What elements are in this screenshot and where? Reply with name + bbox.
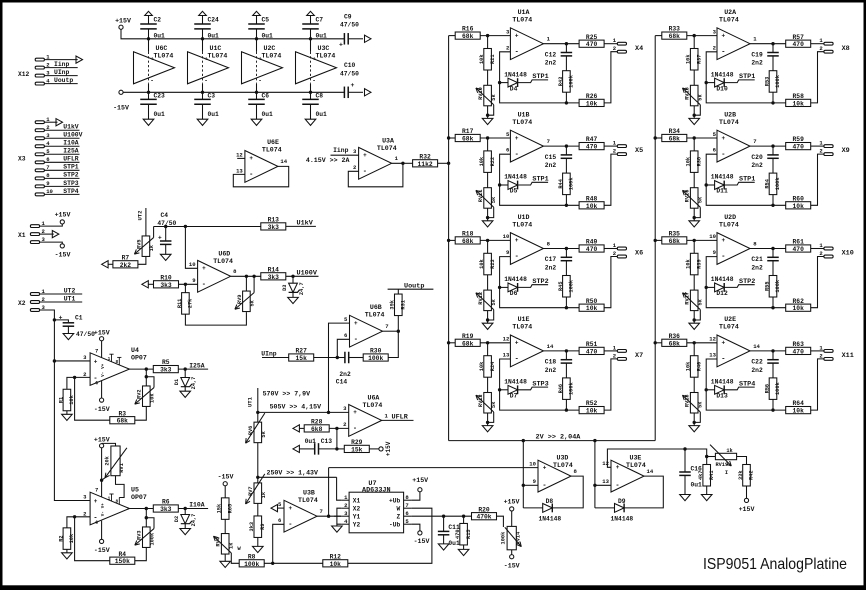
svg-text:10k: 10k <box>586 408 598 415</box>
svg-text:1N4148: 1N4148 <box>504 174 527 181</box>
connector X1 pin 2 <box>30 228 58 238</box>
wire bus to R36 <box>655 342 662 344</box>
svg-text:-: - <box>515 253 519 261</box>
potentiometer RV4 <box>214 534 240 564</box>
net label Uoutp with wire <box>388 282 434 290</box>
svg-text:100k: 100k <box>368 355 383 362</box>
svg-text:+: + <box>515 237 519 244</box>
svg-text:68k: 68k <box>669 340 681 347</box>
wire R34 to node <box>687 137 717 139</box>
svg-text:68k: 68k <box>462 33 474 40</box>
svg-text:R23: R23 <box>490 259 496 269</box>
svg-text:10k: 10k <box>793 305 805 312</box>
ground <box>482 221 493 227</box>
capacitor C12 <box>545 44 572 71</box>
wire R4 to RV3 <box>135 547 147 560</box>
svg-text:R34: R34 <box>669 128 681 135</box>
op-amp U5 <box>83 486 147 526</box>
resistor R21 <box>479 49 496 71</box>
wire D3 to ground <box>292 293 294 298</box>
svg-text:100k: 100k <box>775 381 781 395</box>
svg-text:0u1: 0u1 <box>305 438 317 445</box>
junction <box>771 408 774 411</box>
zener diode D1 <box>174 377 197 390</box>
wire R23 to RV12 <box>487 275 489 290</box>
arrow port at C13 <box>293 445 315 452</box>
svg-text:UInp: UInp <box>54 69 70 76</box>
svg-text:D7: D7 <box>510 393 518 400</box>
svg-text:R16: R16 <box>462 26 474 33</box>
resistor R37 <box>686 49 703 71</box>
resistor R14 <box>261 266 286 280</box>
junction <box>705 183 708 186</box>
ground <box>63 334 74 340</box>
svg-text:V-: V- <box>102 511 106 516</box>
resistor R52 <box>579 400 604 414</box>
svg-text:0u1: 0u1 <box>262 111 274 118</box>
wire R24 to RV13 <box>487 377 489 392</box>
power net -15V at U7 <box>412 524 430 545</box>
svg-text:1k: 1k <box>149 244 155 251</box>
wire R60 to connector pin 2 <box>811 154 824 205</box>
ground <box>160 254 171 260</box>
wire R3 to RV2 <box>135 406 147 420</box>
junction <box>693 341 696 344</box>
resistor R16 <box>455 26 480 40</box>
connector X2 pin 3 <box>30 304 45 312</box>
svg-text:+: + <box>721 237 725 244</box>
svg-text:U3D: U3D <box>557 454 569 461</box>
svg-text:+: + <box>721 340 725 347</box>
resistor R50 <box>579 298 604 312</box>
svg-text:15k: 15k <box>351 446 363 453</box>
svg-text:-15V: -15V <box>94 547 110 554</box>
wire U1D output <box>543 248 579 250</box>
svg-text:10: 10 <box>709 233 716 240</box>
wire bus to R16 <box>449 35 456 37</box>
zener diode D3 <box>282 282 305 295</box>
svg-text:150k: 150k <box>115 558 130 565</box>
svg-text:STP1: STP1 <box>63 164 79 171</box>
wire bus to U4 noninverting input <box>54 360 90 362</box>
op-amp U1D <box>503 214 551 265</box>
svg-text:X1: X1 <box>353 498 361 505</box>
svg-text:D5: D5 <box>510 188 518 195</box>
connector X3 pin 5 <box>35 148 79 156</box>
svg-text:U2A: U2A <box>724 9 736 16</box>
diode D9 feedback <box>595 476 663 522</box>
svg-text:68k: 68k <box>462 136 474 143</box>
svg-text:UT1: UT1 <box>246 396 253 407</box>
svg-text:-: - <box>202 281 206 289</box>
connector X3 pin 1 <box>35 116 62 126</box>
wire 4,15V node to U6A noninverting input <box>258 411 349 413</box>
svg-text:5k: 5k <box>250 299 256 306</box>
wire RV9 top to U6D output <box>245 276 247 291</box>
svg-text:13: 13 <box>236 167 243 174</box>
connector X5 pin 2 <box>613 148 627 156</box>
wire U1B output <box>543 145 579 147</box>
connector X9 pin 2 <box>819 148 833 156</box>
power net +15V at RV14 <box>504 498 520 526</box>
resistor R64 <box>786 400 811 414</box>
svg-text:TL074: TL074 <box>719 324 739 331</box>
junction <box>486 136 489 139</box>
connector X6 pin 1 <box>613 242 627 250</box>
svg-text:10k: 10k <box>479 361 485 371</box>
svg-text:OP07: OP07 <box>131 494 147 501</box>
svg-text:3k3: 3k3 <box>160 282 172 289</box>
svg-text:1: 1 <box>108 357 111 362</box>
arrow port at U3B noninverting input <box>271 505 284 512</box>
junction <box>255 91 258 94</box>
potentiometer RV6 <box>246 413 267 443</box>
svg-text:3k3: 3k3 <box>268 274 280 281</box>
svg-text:X11: X11 <box>842 352 854 360</box>
svg-text:68k: 68k <box>117 418 129 425</box>
junction <box>593 484 596 487</box>
resistor R15 <box>455 523 472 545</box>
svg-text:D4: D4 <box>510 85 518 92</box>
connector X11 pin 2 <box>819 352 833 360</box>
wire U2E inverting feedback line <box>706 359 786 410</box>
wire R38 to RV16 <box>693 172 695 187</box>
svg-text:12: 12 <box>709 336 716 343</box>
wire inverting node down to C13/R29 <box>336 428 338 449</box>
wire U3B out to U7 Y1 <box>334 515 341 517</box>
potentiometer RV10 <box>476 85 497 117</box>
svg-text:470: 470 <box>586 144 598 151</box>
svg-text:3k3: 3k3 <box>160 367 172 374</box>
svg-text:STP3: STP3 <box>532 380 548 388</box>
svg-text:R25: R25 <box>586 34 598 41</box>
svg-text:250V >> 1,43V: 250V >> 1,43V <box>267 469 318 476</box>
svg-text:+: + <box>59 315 63 322</box>
wire R40 to RV18 <box>693 377 695 392</box>
svg-text:D1: D1 <box>174 379 180 385</box>
svg-text:R4: R4 <box>119 551 127 558</box>
wire RV18 to ground <box>693 413 695 426</box>
junction <box>565 204 568 207</box>
potentiometer RV5 <box>134 227 155 257</box>
svg-text:R29: R29 <box>351 439 363 446</box>
op-amp U3C <box>296 39 337 93</box>
wire R59 to connector <box>811 145 824 147</box>
svg-text:-: - <box>204 77 208 84</box>
svg-text:Z: Z <box>396 514 400 521</box>
wire D1 to ground <box>184 387 186 391</box>
resistor R7 <box>113 254 138 268</box>
wire R61 to connector <box>811 248 824 250</box>
wire U3B output up to U3D noninverting line <box>328 468 330 517</box>
junction <box>522 484 525 487</box>
wire U6B output node <box>383 330 399 332</box>
svg-text:C23: C23 <box>154 93 166 100</box>
svg-text:C21: C21 <box>751 256 763 263</box>
junction <box>271 562 274 565</box>
wire -15V rail <box>123 91 344 93</box>
svg-text:Y2: Y2 <box>353 522 361 529</box>
svg-text:R8: R8 <box>248 553 256 560</box>
resistor R25 <box>579 34 604 48</box>
op-amp U2A <box>713 9 758 60</box>
arrow port at R28 <box>293 425 304 432</box>
wire RV5 wiper to U1kV line <box>154 226 261 228</box>
wire U2A inverting feedback line <box>706 52 786 103</box>
wire U1A inverting feedback line <box>500 52 579 103</box>
resistor R45 <box>558 276 575 298</box>
zener diode D2 <box>174 514 197 527</box>
svg-text:TL074: TL074 <box>213 258 233 265</box>
wire R65 to RV4 <box>224 519 226 533</box>
junction <box>401 162 404 165</box>
svg-text:C13: C13 <box>321 438 333 445</box>
resistor R10 <box>154 274 179 288</box>
resistor R42 <box>738 465 755 487</box>
svg-text:C17: C17 <box>545 256 557 263</box>
svg-text:5k: 5k <box>491 196 497 203</box>
diode D8 feedback <box>523 476 583 522</box>
svg-text:+: + <box>515 340 519 347</box>
op-amp U6C <box>134 39 175 93</box>
resistor R28 <box>304 419 329 433</box>
junction <box>447 341 450 344</box>
svg-text:C24: C24 <box>208 16 220 23</box>
svg-text:5k: 5k <box>697 298 703 305</box>
svg-text:C1: C1 <box>75 315 83 322</box>
junction <box>335 427 338 430</box>
svg-text:-: - <box>615 482 619 490</box>
diode D4 <box>500 71 548 92</box>
svg-text:+15V: +15V <box>739 506 755 513</box>
svg-text:8: 8 <box>115 500 118 505</box>
svg-text:33k: 33k <box>738 470 744 480</box>
svg-text:R63: R63 <box>793 341 805 348</box>
wire node to RV19 and R41 <box>685 449 707 465</box>
svg-text:C14: C14 <box>336 379 348 386</box>
wire R13 to U1kV label <box>286 220 316 228</box>
junction <box>654 341 657 344</box>
potentiometer RV19 <box>710 445 737 476</box>
wire R39 to RV17 <box>693 275 695 290</box>
wire R10 to U6D inverting input <box>179 283 198 285</box>
wire RV6 to RV7 <box>257 443 259 483</box>
svg-text:100k: 100k <box>244 561 259 568</box>
svg-text:10k: 10k <box>686 156 692 166</box>
svg-text:47/50: 47/50 <box>340 21 359 28</box>
svg-text:+: + <box>202 265 206 272</box>
junction <box>486 239 489 242</box>
svg-text:D8: D8 <box>546 498 554 505</box>
svg-text:+Ub: +Ub <box>389 498 400 505</box>
svg-text:5k: 5k <box>697 401 703 408</box>
wire U3D noninverting input from U3B <box>329 467 538 469</box>
resistor R6 <box>153 499 178 513</box>
ground <box>332 526 343 532</box>
svg-text:U2C: U2C <box>264 45 276 52</box>
svg-text:R1: R1 <box>58 397 64 403</box>
junction <box>245 275 248 278</box>
svg-text:10k: 10k <box>793 408 805 415</box>
svg-text:10k: 10k <box>686 361 692 371</box>
wire R22 to RV11 <box>487 172 489 187</box>
svg-text:2n2: 2n2 <box>545 162 557 169</box>
junction <box>693 239 696 242</box>
connector X3 pin 4 <box>35 140 79 148</box>
wire RV11 to ground <box>487 208 489 221</box>
wire R64 to connector pin 2 <box>811 359 824 410</box>
svg-text:V-: V- <box>102 372 106 377</box>
svg-text:I10A: I10A <box>63 140 79 147</box>
resistor R31 <box>390 294 407 316</box>
svg-text:-: - <box>150 77 154 84</box>
svg-text:U3B: U3B <box>303 489 315 496</box>
svg-text:7: 7 <box>95 487 98 494</box>
connector X4 pin 2 <box>613 45 627 53</box>
svg-text:4k7: 4k7 <box>698 470 704 480</box>
junction <box>771 306 774 309</box>
wire R14 to U100V label <box>286 270 319 278</box>
svg-text:UT1: UT1 <box>64 295 76 302</box>
wire RV15 to ground <box>693 106 695 119</box>
svg-text:R18: R18 <box>462 231 474 238</box>
junction <box>771 204 774 207</box>
svg-text:D3: D3 <box>282 285 288 291</box>
svg-text:R44: R44 <box>558 178 564 188</box>
potentiometer RV2 <box>135 375 156 406</box>
svg-text:+: + <box>543 464 547 471</box>
svg-text:U100V: U100V <box>63 132 82 139</box>
svg-text:-: - <box>721 48 725 56</box>
svg-text:U1A: U1A <box>518 9 530 16</box>
ground <box>689 426 700 432</box>
svg-text:14: 14 <box>547 343 554 350</box>
junction C4 <box>164 225 167 228</box>
resistor R53 <box>764 71 781 93</box>
junction <box>771 144 774 147</box>
svg-text:X8: X8 <box>842 45 850 53</box>
svg-text:W: W <box>396 506 400 513</box>
svg-text:U3E: U3E <box>630 454 642 461</box>
capacitor C8 <box>302 92 327 119</box>
wire R21 to RV10 <box>487 70 489 85</box>
connector X10 pin 2 <box>819 250 833 258</box>
wire U6E feedback loop <box>233 166 288 186</box>
svg-text:TL074: TL074 <box>553 462 573 469</box>
wire R41 to ground <box>706 486 708 495</box>
svg-text:470: 470 <box>586 246 598 253</box>
wire U2D inverting feedback line <box>706 257 786 308</box>
wire U7 W to R12 <box>348 508 432 563</box>
svg-text:Z4,7: Z4,7 <box>191 377 197 390</box>
svg-text:Iinp: Iinp <box>54 61 70 68</box>
svg-text:R6: R6 <box>162 499 170 506</box>
svg-text:4.15V >> 2A: 4.15V >> 2A <box>306 157 350 164</box>
svg-text:C2: C2 <box>154 16 162 23</box>
svg-text:R46: R46 <box>558 384 564 394</box>
svg-text:68k: 68k <box>669 238 681 245</box>
junction <box>683 447 686 450</box>
svg-text:X3: X3 <box>18 156 26 163</box>
svg-text:U6D: U6D <box>218 251 230 258</box>
ground <box>689 221 700 227</box>
wire R53 to feedback line <box>772 92 774 103</box>
svg-text:TL074: TL074 <box>262 52 282 59</box>
svg-text:100k: 100k <box>569 279 575 293</box>
svg-text:UT2: UT2 <box>136 210 143 221</box>
potentiometer RV7 <box>246 474 267 504</box>
svg-text:2n2: 2n2 <box>545 264 557 271</box>
junction <box>565 144 568 147</box>
connector X8 pin 2 <box>819 45 833 53</box>
svg-text:0u1: 0u1 <box>316 111 328 118</box>
wire U2A output <box>750 43 786 45</box>
svg-text:1N4148: 1N4148 <box>711 379 734 386</box>
svg-text:C4: C4 <box>161 212 169 219</box>
junction <box>705 81 708 84</box>
resistor R34 <box>662 128 687 142</box>
capacitor C20 <box>751 146 778 173</box>
wire R56 to feedback line <box>772 399 774 410</box>
wire UInp to R27 <box>262 357 289 359</box>
wire RV10 to ground <box>487 106 489 119</box>
resistor R15 <box>463 516 465 523</box>
svg-text:TL074: TL074 <box>316 52 336 59</box>
capacitor C13 <box>305 438 337 455</box>
wire R6 to I10A <box>178 508 208 510</box>
junction <box>593 439 596 442</box>
svg-text:I: I <box>725 470 728 476</box>
potentiometer RV14 <box>500 526 521 549</box>
svg-text:TL074: TL074 <box>208 52 228 59</box>
junction <box>522 439 525 442</box>
op-amp U1E <box>503 316 554 367</box>
wire R36 to node <box>687 342 717 344</box>
svg-text:TL074: TL074 <box>377 145 397 152</box>
resistor R58 <box>786 93 811 107</box>
wire node down to U6D noninverting input <box>185 226 197 268</box>
junction <box>256 411 259 414</box>
wire R46 to feedback line <box>565 399 567 410</box>
svg-text:U3C: U3C <box>318 45 330 52</box>
svg-text:U1kV: U1kV <box>297 220 314 228</box>
resistor R11 <box>184 284 186 292</box>
connector X4 pin 1 <box>613 37 627 45</box>
resistor R37 <box>693 36 695 49</box>
resistor R19 <box>455 333 480 347</box>
junction <box>447 162 450 165</box>
wire node up to U3B inverting input <box>273 524 284 563</box>
arrow port at R10 <box>142 281 154 288</box>
svg-text:R3: R3 <box>119 410 127 417</box>
resistor R35 <box>662 231 687 245</box>
wire U3E noninverting input from feedback node <box>607 449 685 467</box>
wire to zener D3 <box>292 276 294 283</box>
junction <box>705 286 708 289</box>
capacitor C21 <box>751 249 778 276</box>
svg-text:R45: R45 <box>558 281 564 291</box>
wire R27 to node <box>314 357 338 359</box>
svg-text:R52: R52 <box>586 400 598 407</box>
svg-text:47/50: 47/50 <box>157 220 176 227</box>
wire R8 to node <box>264 562 323 564</box>
junction <box>565 42 568 45</box>
svg-text:-15V: -15V <box>94 406 110 413</box>
svg-text:100k: 100k <box>150 532 156 546</box>
svg-text:C10: C10 <box>344 62 356 69</box>
junction <box>73 376 76 379</box>
svg-text:10k: 10k <box>586 100 598 107</box>
